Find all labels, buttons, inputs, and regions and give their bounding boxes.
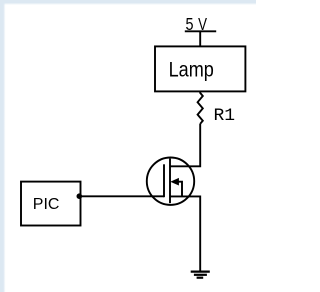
svg-text:V: V bbox=[198, 14, 207, 34]
transistor Q1 channel bbox=[169, 159, 171, 204]
svg-text:5: 5 bbox=[186, 14, 194, 34]
junction node at PIC pin bbox=[77, 193, 83, 199]
wire PIC to gate bbox=[80, 195, 165, 197]
transistor Q1 body circle bbox=[147, 158, 194, 205]
svg-text:R1: R1 bbox=[214, 106, 236, 126]
transistor Q1 body arrowhead bbox=[170, 178, 179, 186]
transistor Q1 source lead bbox=[170, 196, 200, 271]
svg-text:Lamp: Lamp bbox=[169, 58, 214, 81]
ground bbox=[191, 272, 210, 278]
transistor Q1 gate plate bbox=[163, 164, 165, 197]
lamp LA1 bbox=[155, 46, 245, 91]
wire 5V to Lamp bbox=[199, 31, 201, 46]
transistor Q1 body arrow tail bbox=[176, 182, 182, 197]
svg-text:PIC: PIC bbox=[33, 196, 60, 213]
power rail 5V bbox=[185, 30, 216, 32]
pic U1 box bbox=[21, 182, 81, 226]
resistor R1 bbox=[198, 91, 203, 123]
wire resistor to drain bbox=[170, 124, 200, 167]
